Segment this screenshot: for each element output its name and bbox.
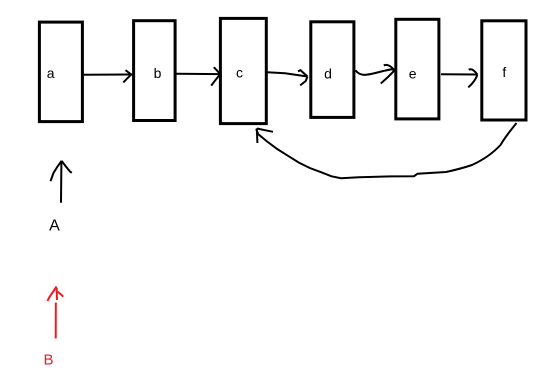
- label A: [49, 218, 60, 235]
- svg-text:c: c: [236, 65, 243, 81]
- arrow d to e: [356, 65, 395, 84]
- node box f: [482, 21, 526, 120]
- label f: [502, 64, 506, 80]
- arrow a to b: [82, 70, 133, 82]
- node box d: [311, 22, 354, 118]
- return arrow f to c: [256, 123, 516, 178]
- svg-text:e: e: [409, 66, 417, 82]
- label a: [47, 65, 55, 81]
- red pointer arrow B: [47, 287, 63, 339]
- label B: [43, 352, 53, 369]
- arrow e to f: [441, 69, 477, 87]
- svg-text:A: A: [49, 218, 60, 235]
- label e: [409, 66, 417, 82]
- svg-text:b: b: [154, 65, 162, 81]
- svg-text:f: f: [502, 64, 506, 80]
- label c: [236, 65, 243, 81]
- pointer arrow A: [51, 161, 72, 203]
- node box a: [39, 22, 82, 122]
- svg-text:d: d: [324, 66, 332, 82]
- node box c: [220, 18, 266, 123]
- svg-text:B: B: [43, 352, 53, 369]
- label d: [324, 66, 332, 82]
- label b: [154, 65, 162, 81]
- node box e: [396, 19, 439, 119]
- node box b: [134, 21, 176, 121]
- arrow b to c: [176, 67, 221, 85]
- arrow c to d: [267, 70, 308, 85]
- svg-text:a: a: [47, 65, 55, 81]
